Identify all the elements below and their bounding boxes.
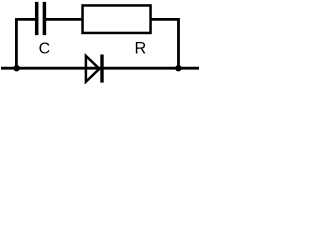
diode D1 cathode bar: [100, 55, 103, 83]
node junction dot right: [175, 65, 181, 71]
node junction dot left: [13, 65, 19, 71]
capacitor C1 right plate: [43, 2, 47, 35]
wire resistor to right vertical: [151, 19, 179, 68]
wire left vertical with top-left corner to capacitor: [16, 19, 36, 68]
wire bottom horizontal: [1, 67, 199, 70]
capacitor C1 left plate: [35, 2, 39, 35]
svg-text:C: C: [39, 41, 51, 58]
resistor R1 body: [83, 5, 151, 33]
diode D1 triangle: [86, 56, 100, 82]
svg-text:R: R: [135, 40, 147, 58]
wire capacitor to resistor: [44, 18, 82, 21]
